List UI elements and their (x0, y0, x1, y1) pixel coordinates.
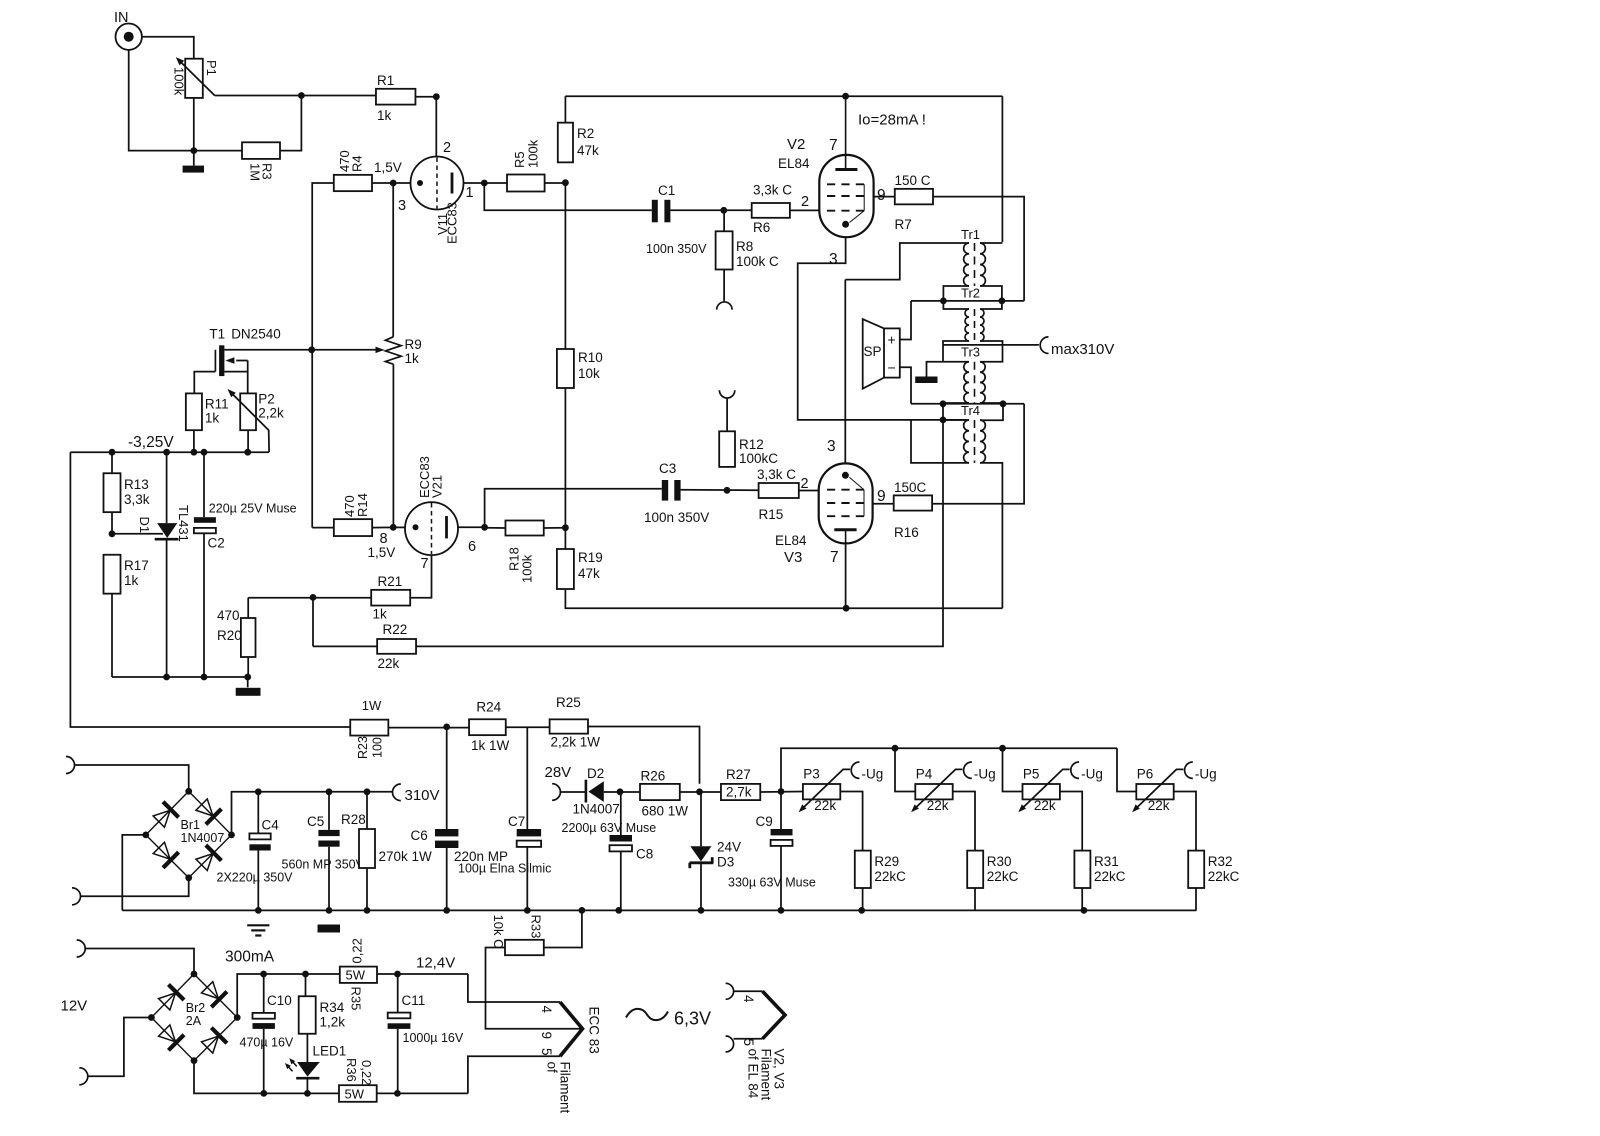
capacitor C10 (263, 974, 265, 1013)
wire R24 to R25 (506, 726, 550, 728)
svg-text:C2: C2 (208, 536, 225, 551)
wire rail drop to P4 (895, 748, 915, 791)
ground bar at Tr3 (915, 377, 937, 384)
resistor R1 (376, 89, 416, 105)
resistor R36 0,22 5W (339, 1085, 377, 1102)
wire rail drop to P5 (1003, 748, 1023, 791)
svg-text:R25: R25 (556, 695, 581, 710)
svg-text:Tr4: Tr4 (961, 403, 980, 418)
svg-text:6: 6 (468, 539, 476, 555)
resistor R25 (550, 719, 588, 733)
wire V2 pin9 to R7 (874, 196, 895, 198)
resistor R22 (313, 645, 377, 647)
node 6,3V label (626, 1009, 668, 1020)
svg-text:12,4V: 12,4V (416, 955, 455, 972)
wire AC1 to Br1 (75, 765, 189, 791)
resistor R17 (104, 555, 121, 594)
svg-text:EL84: EL84 (775, 533, 807, 548)
potentiometer P2 (240, 393, 256, 430)
wire V3 pin3 vertical (844, 280, 846, 464)
svg-text:Tr3: Tr3 (961, 345, 980, 360)
svg-text:R4: R4 (350, 155, 365, 172)
bridge rectifier Br1 (146, 791, 232, 878)
svg-text:3,3k: 3,3k (124, 492, 150, 507)
svg-text:R8: R8 (736, 239, 753, 254)
connector filament V2V3 pin5 (726, 1036, 734, 1052)
wire Tr4 bottom-right down (980, 463, 1002, 608)
resistor R12 (719, 431, 735, 467)
connector AC input 1 (66, 757, 75, 774)
svg-text:100k C: 100k C (736, 254, 779, 269)
resistor R34 (305, 974, 307, 996)
wire R7 to Tr row1 (933, 197, 1024, 301)
svg-text:-3,25V: -3,25V (128, 434, 174, 451)
svg-text:R20: R20 (217, 628, 242, 643)
svg-text:P2: P2 (258, 392, 275, 407)
wire ground to filament pin5 (468, 1056, 560, 1093)
wire T1 drain to R9 (224, 349, 376, 351)
wire R5 to R2 node (545, 182, 566, 184)
svg-text:3: 3 (827, 438, 836, 455)
svg-text:R16: R16 (894, 525, 919, 540)
svg-text:C7: C7 (508, 814, 525, 829)
resistor R16 (894, 495, 932, 510)
svg-text:R21: R21 (378, 574, 403, 589)
svg-text:R35: R35 (349, 987, 364, 1011)
svg-text:100kC: 100kC (739, 451, 778, 466)
svg-text:R33: R33 (529, 915, 544, 939)
svg-text:9: 9 (877, 187, 886, 204)
svg-text:+: + (888, 332, 896, 348)
resistor R5 (507, 175, 545, 192)
svg-text:Tr2: Tr2 (961, 286, 980, 301)
tube V21 ECC83 triode (405, 502, 458, 555)
wire P1 wiper to R1 (215, 95, 302, 97)
earth ground under C4 (247, 924, 269, 926)
resistor R15 (759, 483, 799, 498)
wire rail drop to P6 (1117, 748, 1136, 791)
wire -Ug distribution rail (781, 748, 1117, 791)
tube V2 EL84 pentode (819, 155, 873, 237)
connector 12V AC input 1 (77, 940, 86, 957)
connector IN jack (116, 24, 142, 50)
svg-text:-Ug: -Ug (974, 767, 996, 782)
wire R9 bottom to V21 (392, 364, 394, 527)
svg-text:R14: R14 (355, 493, 370, 517)
capacitor C1 (652, 200, 658, 223)
tube V11 ECC83 triode (411, 157, 464, 210)
svg-text:R22: R22 (383, 622, 408, 637)
resistor R7 (895, 189, 933, 205)
svg-text:Io=28mA !: Io=28mA ! (858, 112, 926, 129)
wire row2 max310V (943, 344, 1039, 346)
svg-text:330µ 63V Muse: 330µ 63V Muse (728, 876, 816, 890)
resistor R8 (716, 231, 733, 269)
wire Br2 right to heater plus rail (237, 974, 340, 1018)
wire R6 to V2 pin2 (790, 209, 819, 211)
wire Br2 bottom to heater ground rail (194, 1061, 339, 1094)
wire SP plus to row1 (900, 301, 911, 340)
svg-text:R23: R23 (356, 736, 370, 759)
wire R10 to R19 (564, 388, 566, 549)
connector filament V2V3 pin4 (726, 983, 734, 999)
resistor R14 (334, 519, 372, 536)
wire R1 to V11 pin2 (415, 96, 436, 98)
svg-text:ECC 83: ECC 83 (587, 1007, 602, 1054)
wire R21 left to node (248, 597, 371, 599)
capacitor C4 (257, 792, 259, 834)
resistor R6 (752, 203, 790, 218)
svg-text:5W: 5W (345, 1087, 365, 1102)
svg-text:C9: C9 (756, 814, 773, 829)
wire R14 to tube (372, 526, 405, 528)
svg-text:28V: 28V (545, 764, 572, 781)
diode D1 TL431 (166, 452, 168, 523)
resistor R29 22kC (855, 851, 871, 888)
LED light arrows (287, 1065, 293, 1072)
wire Tr4 bottom-left (911, 420, 969, 463)
connector -Ug at P6 (1185, 762, 1193, 778)
wire R16 to row3 (932, 404, 1024, 504)
svg-text:5W: 5W (346, 967, 366, 982)
svg-text:P6: P6 (1137, 767, 1154, 782)
svg-text:1M: 1M (248, 163, 263, 181)
svg-text:ECC83: ECC83 (445, 202, 460, 244)
svg-text:24V: 24V (717, 840, 741, 855)
svg-text:2,2k: 2,2k (258, 406, 284, 421)
wire bias ground rail (112, 676, 248, 678)
svg-text:R1: R1 (377, 73, 394, 88)
wire R33 right to rail (544, 910, 582, 947)
svg-text:3: 3 (829, 251, 838, 268)
resistor R10 (557, 349, 574, 388)
svg-text:Br2: Br2 (186, 1001, 206, 1015)
capacitor C3 (662, 480, 668, 501)
svg-text:SP: SP (864, 344, 882, 359)
svg-text:R28: R28 (341, 812, 366, 827)
svg-text:R31: R31 (1094, 854, 1119, 869)
wire R19 bottom rail (565, 589, 1002, 608)
svg-text:2: 2 (443, 140, 451, 156)
wire grid line to C1 (484, 183, 652, 210)
resistor R18 (505, 521, 543, 536)
capacitor C6 (446, 728, 448, 829)
svg-text:1k 1W: 1k 1W (471, 738, 510, 753)
connector max310V (1040, 337, 1048, 354)
svg-text:-Ug: -Ug (1195, 767, 1217, 782)
potentiometer P4 22k (915, 784, 952, 799)
svg-text:22k: 22k (378, 656, 400, 671)
svg-text:V3: V3 (784, 549, 802, 566)
svg-text:22k: 22k (1034, 798, 1056, 813)
svg-text:1N4007: 1N4007 (181, 831, 225, 845)
diode D2 1N4007 (585, 780, 588, 803)
wire Tr2 top stubs (943, 301, 969, 309)
svg-text:R24: R24 (476, 700, 501, 715)
filament of EL84 chevron (734, 990, 763, 992)
svg-text:1,5V: 1,5V (374, 160, 402, 175)
svg-text:5: 5 (539, 1048, 554, 1056)
wire P5 to R31 (1060, 792, 1082, 851)
svg-text:150 C: 150 C (895, 173, 931, 188)
wire R29 bottom (862, 888, 864, 910)
wire R2 node down to R10 (564, 183, 566, 349)
svg-text:1: 1 (466, 185, 474, 201)
svg-text:R9: R9 (405, 337, 422, 352)
wire IN ground side (129, 50, 194, 151)
svg-text:R15: R15 (759, 507, 784, 522)
svg-text:C10: C10 (267, 993, 292, 1008)
wire R4 to tube (372, 182, 411, 184)
wire Tr3 bottom stubs (943, 402, 969, 405)
potentiometer P1 (185, 59, 203, 98)
wire PSU ground rail (122, 909, 1196, 911)
svg-text:100: 100 (371, 737, 385, 758)
svg-text:R10: R10 (578, 350, 603, 365)
svg-text:R32: R32 (1208, 854, 1233, 869)
svg-text:22k: 22k (1148, 798, 1170, 813)
wire Tr2 bottom stubs (943, 341, 969, 345)
resistor R13 (111, 452, 113, 473)
svg-text:4: 4 (539, 1006, 554, 1014)
svg-text:D2: D2 (587, 766, 604, 781)
svg-text:100k: 100k (526, 139, 541, 168)
junction (298, 92, 305, 99)
svg-text:1k: 1k (405, 351, 420, 366)
resistor R3 (242, 142, 280, 159)
filament of ECC83 chevron (560, 1002, 583, 1056)
wire pin6 up to C3 line (485, 489, 662, 528)
svg-text:TL431: TL431 (176, 505, 191, 542)
svg-text:1k: 1k (124, 573, 139, 588)
tube V3 EL84 pentode (819, 463, 873, 543)
svg-text:V2, V3Filamentof EL 84: V2, V3Filamentof EL 84 (746, 1049, 787, 1101)
svg-text:22kC: 22kC (874, 869, 906, 884)
svg-text:0,22: 0,22 (359, 1060, 374, 1085)
wire Br1 left to ground rail (122, 835, 146, 911)
connector at R12 (cup) (719, 390, 734, 398)
connector -Ug at P3 (851, 762, 859, 778)
wire pin6 out (458, 526, 484, 528)
wire R17 bottom (111, 594, 113, 677)
wire pin1 out (464, 182, 485, 184)
svg-text:3: 3 (398, 198, 406, 214)
wire 12,4V to filament pin4 (468, 974, 560, 1002)
svg-text:C3: C3 (659, 461, 676, 476)
wire pin7 to R21 (410, 555, 431, 598)
svg-text:C4: C4 (262, 818, 280, 833)
svg-text:P1: P1 (204, 60, 219, 76)
svg-text:C8: C8 (636, 847, 653, 862)
svg-text:EL84: EL84 (778, 156, 810, 171)
wire V2 pin3 cathode path (798, 237, 966, 420)
resistor R31 22kC (1074, 851, 1090, 888)
svg-text:2,2k 1W: 2,2k 1W (551, 735, 601, 750)
wire R8 top (723, 210, 725, 231)
svg-text:R13: R13 (124, 477, 149, 492)
resistor R24 (469, 719, 506, 735)
resistor R20 (247, 598, 249, 618)
wire R4 left loop (312, 183, 334, 528)
wire R25 to D3 node (588, 727, 700, 784)
wire Tr1 bottom stubs (943, 286, 969, 301)
resistor R30 22kC (967, 851, 983, 888)
resistor R21 (371, 590, 410, 606)
svg-text:680 1W: 680 1W (642, 804, 689, 819)
svg-text:7: 7 (829, 137, 838, 154)
wire R31 bottom (1081, 888, 1083, 910)
wire Tr1 top-left to V3 cathode line (845, 243, 969, 280)
potentiometer P3 22k (803, 784, 840, 799)
svg-text:R29: R29 (874, 854, 899, 869)
wire D2 to R26 (604, 791, 640, 793)
svg-text:V21: V21 (430, 475, 445, 498)
svg-text:47k: 47k (578, 566, 600, 581)
capacitor C8 (620, 792, 622, 835)
svg-text:100µ Elna Silmic: 100µ Elna Silmic (458, 862, 551, 876)
svg-text:DN2540: DN2540 (231, 327, 281, 342)
wire P6 to R32 (1174, 792, 1196, 851)
ground chassis bar 2 (236, 688, 261, 696)
svg-text:Br1: Br1 (181, 818, 201, 832)
svg-text:R30: R30 (987, 854, 1012, 869)
svg-text:2200µ 63V Muse: 2200µ 63V Muse (562, 821, 657, 835)
svg-text:4: 4 (741, 995, 756, 1003)
svg-text:-Ug: -Ug (862, 767, 884, 782)
resistor R32 22kC (1188, 851, 1204, 888)
svg-text:Tr1: Tr1 (961, 227, 980, 242)
svg-text:R34: R34 (320, 1000, 345, 1015)
svg-text:P5: P5 (1023, 767, 1040, 782)
svg-text:D1: D1 (137, 517, 152, 534)
wire IN to P1 top (142, 37, 194, 59)
svg-text:1000µ 16V: 1000µ 16V (403, 1031, 464, 1045)
svg-text:3,3k C: 3,3k C (753, 183, 792, 198)
svg-text:1W: 1W (362, 698, 382, 713)
svg-text:5: 5 (741, 1039, 756, 1047)
wire R13 to junction (111, 512, 113, 534)
svg-text:P3: P3 (803, 767, 820, 782)
wire P3 to R29 (840, 792, 862, 851)
LED LED1 (306, 1034, 308, 1062)
wire row1 Tr1/Tr2 (911, 300, 1024, 302)
wire R32 bottom (1195, 888, 1197, 910)
wire T1 gate to R11 (194, 372, 215, 394)
resistor R19 (557, 549, 574, 589)
potentiometer P5 22k (1023, 784, 1060, 799)
svg-text:0,22: 0,22 (350, 938, 365, 963)
svg-text:22k: 22k (814, 798, 836, 813)
svg-text:T1: T1 (209, 327, 225, 342)
svg-text:Filamentof: Filamentof (545, 1062, 573, 1114)
svg-text:V2: V2 (787, 136, 805, 153)
zener diode D3 24V (700, 792, 702, 847)
svg-text:R26: R26 (641, 769, 666, 784)
svg-text:−: − (888, 360, 896, 376)
svg-text:R2: R2 (577, 126, 594, 141)
svg-text:7: 7 (830, 549, 839, 566)
wire T1 source to P2 (224, 371, 247, 373)
wire V3 pin7 down (845, 543, 847, 608)
ground chassis bar (183, 166, 204, 173)
wire C1 to R6 (670, 209, 751, 211)
svg-text:22kC: 22kC (1208, 869, 1240, 884)
svg-text:max310V: max310V (1051, 341, 1114, 358)
wire R35 to 12,4V (377, 973, 468, 975)
wire R26 to node (680, 791, 721, 793)
wire R8 bottom to connector (723, 270, 725, 302)
wire row3 Tr3/Tr4 (911, 403, 1024, 405)
connector -Ug at P4 (964, 762, 972, 778)
resistor R26 (640, 784, 680, 800)
resistor R4 (334, 175, 372, 191)
svg-text:470µ 16V: 470µ 16V (240, 1036, 294, 1050)
svg-text:6,3V: 6,3V (674, 1009, 711, 1029)
svg-text:300mA: 300mA (225, 949, 275, 966)
svg-text:R19: R19 (578, 550, 603, 565)
wire Br1 right to 310V rail (232, 792, 393, 835)
connector 12V AC input 2 (79, 1068, 88, 1085)
svg-text:R7: R7 (895, 217, 912, 232)
svg-text:10k C: 10k C (491, 915, 506, 949)
wire to Br2 left (88, 1018, 152, 1077)
wire node down to R22 (312, 597, 314, 646)
svg-text:1k: 1k (373, 607, 388, 622)
speaker SP (884, 328, 900, 377)
potentiometer P6 22k (1136, 784, 1173, 799)
svg-text:2X220µ 350V: 2X220µ 350V (217, 871, 294, 885)
svg-text:D3: D3 (717, 855, 734, 870)
wire B+ top rail (565, 95, 1002, 97)
svg-text:560n MP 350V: 560n MP 350V (282, 858, 365, 872)
svg-text:R36: R36 (344, 1058, 359, 1082)
wire -3.25V to R23 feed (70, 452, 350, 727)
wire SP minus to row3 (900, 367, 911, 404)
svg-text:R12: R12 (739, 437, 764, 452)
resistor R28 (366, 792, 368, 829)
capacitor C2 (203, 452, 205, 517)
svg-text:P4: P4 (916, 767, 933, 782)
svg-text:R6: R6 (753, 220, 770, 235)
wire R30 bottom (974, 888, 976, 910)
wire P2 bottom (247, 430, 249, 452)
wire to R3 (194, 150, 242, 152)
svg-text:100n 350V: 100n 350V (644, 510, 709, 525)
svg-text:1N4007: 1N4007 (573, 802, 620, 817)
wire R2 top to rail (564, 96, 566, 122)
svg-text:12V: 12V (61, 998, 88, 1015)
svg-text:22kC: 22kC (987, 869, 1019, 884)
connector AC input 2 (72, 888, 81, 905)
svg-text:310V: 310V (405, 787, 440, 804)
svg-text:R11: R11 (205, 397, 229, 412)
resistor R35 0,22 5W (340, 967, 377, 983)
svg-text:C6: C6 (411, 828, 428, 843)
connector -Ug at P5 (1071, 762, 1079, 778)
resistor R23 (350, 720, 388, 736)
svg-text:100k: 100k (520, 554, 535, 583)
bridge rectifier Br2 (151, 974, 237, 1061)
svg-text:47k: 47k (577, 143, 599, 158)
svg-text:2: 2 (801, 194, 809, 210)
resistor R11 (186, 393, 202, 430)
svg-text:7: 7 (421, 556, 429, 572)
capacitor C5 (328, 792, 330, 830)
wire Tr1 top-right (980, 242, 1002, 244)
svg-text:R17: R17 (124, 558, 149, 573)
wire feedback from row3 to R22 (416, 404, 943, 647)
svg-text:2A: 2A (186, 1014, 202, 1028)
